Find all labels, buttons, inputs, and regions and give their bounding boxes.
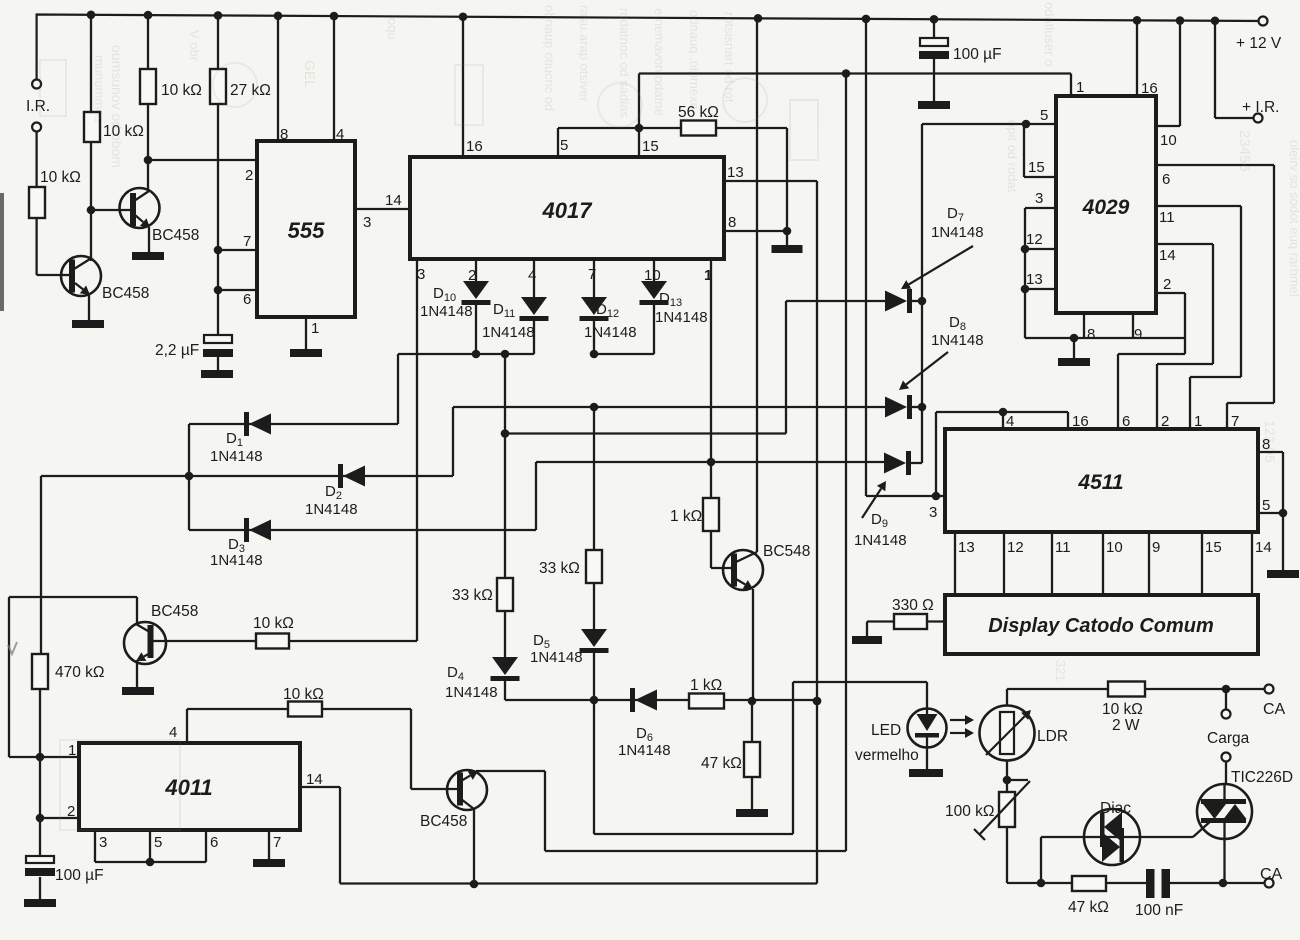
svg-text:1N4148: 1N4148 xyxy=(210,448,263,465)
svg-text:1N4148: 1N4148 xyxy=(854,532,907,549)
svg-text:BC458: BC458 xyxy=(152,227,199,244)
svg-text:23456: 23456 xyxy=(1236,130,1253,172)
svg-text:1N4148: 1N4148 xyxy=(931,332,984,349)
svg-text:1N4148: 1N4148 xyxy=(655,309,708,326)
svg-text:6: 6 xyxy=(243,291,251,308)
svg-text:odatluser o: odatluser o xyxy=(1042,2,1057,66)
svg-text:LDR: LDR xyxy=(1037,728,1068,745)
svg-text:16: 16 xyxy=(1072,413,1089,430)
svg-text:4: 4 xyxy=(336,126,344,143)
svg-text:555: 555 xyxy=(288,218,325,243)
svg-text:8: 8 xyxy=(280,126,288,143)
svg-text:6: 6 xyxy=(1122,413,1130,430)
svg-text:Carga: Carga xyxy=(1207,730,1250,747)
svg-text:oumsunov od obom: oumsunov od obom xyxy=(109,45,125,168)
svg-text:2: 2 xyxy=(1161,413,1169,430)
svg-text:1N4148: 1N4148 xyxy=(445,684,498,701)
svg-text:100 kΩ: 100 kΩ xyxy=(945,803,995,820)
svg-text:1N4148: 1N4148 xyxy=(530,649,583,666)
svg-text:5: 5 xyxy=(1040,107,1048,124)
svg-text:15: 15 xyxy=(642,138,659,155)
svg-text:47 kΩ: 47 kΩ xyxy=(1068,899,1109,916)
svg-text:6: 6 xyxy=(1162,171,1170,188)
svg-text:5: 5 xyxy=(560,137,568,154)
svg-text:11: 11 xyxy=(1055,539,1071,556)
svg-text:Diac: Diac xyxy=(1100,800,1131,817)
svg-text:rasu arap otsiver: rasu arap otsiver xyxy=(577,5,592,102)
svg-text:123 05: 123 05 xyxy=(1262,420,1278,463)
svg-text:BC548: BC548 xyxy=(763,543,810,560)
svg-text:11: 11 xyxy=(1159,209,1175,226)
svg-text:10 kΩ: 10 kΩ xyxy=(1102,701,1143,718)
svg-text:1 kΩ: 1 kΩ xyxy=(670,508,702,525)
svg-text:12: 12 xyxy=(1026,231,1043,248)
svg-text:TIC226D: TIC226D xyxy=(1231,769,1293,786)
svg-text:1: 1 xyxy=(68,742,76,759)
svg-text:10: 10 xyxy=(1106,539,1123,556)
svg-text:6: 6 xyxy=(210,834,218,851)
svg-text:3: 3 xyxy=(929,504,937,521)
svg-text:470 kΩ: 470 kΩ xyxy=(55,664,105,681)
svg-text:LED: LED xyxy=(871,722,901,739)
svg-text:4017: 4017 xyxy=(542,198,594,223)
svg-text:+ I.R.: + I.R. xyxy=(1242,99,1279,116)
svg-text:14: 14 xyxy=(1255,539,1272,556)
svg-text:3: 3 xyxy=(363,214,371,231)
svg-text:16: 16 xyxy=(466,138,483,155)
svg-text:4511: 4511 xyxy=(1077,471,1123,494)
svg-text:1 kΩ: 1 kΩ xyxy=(690,677,722,694)
svg-text:47 kΩ: 47 kΩ xyxy=(701,755,742,772)
svg-text:15: 15 xyxy=(1205,539,1222,556)
svg-text:9: 9 xyxy=(1134,326,1142,343)
svg-text:1: 1 xyxy=(1076,79,1084,96)
svg-text:27 kΩ: 27 kΩ xyxy=(230,82,271,99)
svg-text:2: 2 xyxy=(245,167,253,184)
svg-text:100 µF: 100 µF xyxy=(953,46,1002,63)
svg-text:4011: 4011 xyxy=(164,775,212,800)
svg-text:15: 15 xyxy=(1028,159,1045,176)
svg-text:etnemavon odatne: etnemavon odatne xyxy=(652,8,667,116)
svg-text:4: 4 xyxy=(1006,413,1014,430)
svg-text:10: 10 xyxy=(1160,132,1177,149)
svg-text:14: 14 xyxy=(385,192,402,209)
svg-text:V obr: V obr xyxy=(187,30,202,62)
svg-text:8: 8 xyxy=(1087,326,1095,343)
svg-text:16: 16 xyxy=(1141,80,1158,97)
svg-text:GEL: GEL xyxy=(302,60,318,88)
svg-text:5: 5 xyxy=(154,834,162,851)
svg-text:14: 14 xyxy=(306,771,323,788)
svg-text:rodatnoc od sadias: rodatnoc od sadias xyxy=(617,8,632,118)
svg-text:1N4148: 1N4148 xyxy=(210,552,263,569)
svg-text:7: 7 xyxy=(243,233,251,250)
svg-text:10 kΩ: 10 kΩ xyxy=(283,686,324,703)
svg-text:1: 1 xyxy=(1194,413,1202,430)
svg-text:1: 1 xyxy=(311,320,319,337)
svg-text:33 kΩ: 33 kΩ xyxy=(452,587,493,604)
svg-text:33 kΩ: 33 kΩ xyxy=(539,560,580,577)
svg-text:13: 13 xyxy=(727,164,744,181)
svg-text:321: 321 xyxy=(1053,660,1068,682)
svg-text:BC458: BC458 xyxy=(102,285,149,302)
svg-text:Display Catodo Comum: Display Catodo Comum xyxy=(988,615,1214,637)
svg-text:odnauq ,olpmexe: odnauq ,olpmexe xyxy=(687,10,702,110)
svg-text:rotsisnart od rot: rotsisnart od rot xyxy=(722,12,737,103)
svg-text:9: 9 xyxy=(1152,539,1160,556)
svg-text:3: 3 xyxy=(99,834,107,851)
svg-text:4029: 4029 xyxy=(1082,196,1130,219)
svg-text:vermelho: vermelho xyxy=(855,747,919,764)
svg-text:munummos: munummos xyxy=(92,55,107,123)
svg-text:CA: CA xyxy=(1260,866,1283,883)
svg-text:1N4148: 1N4148 xyxy=(482,324,535,341)
svg-text:oleirv so sodot euq rarbmel: oleirv so sodot euq rarbmel xyxy=(1287,140,1300,297)
svg-text:8: 8 xyxy=(728,214,736,231)
svg-text:BC458: BC458 xyxy=(420,813,467,830)
svg-text:100 nF: 100 nF xyxy=(1135,902,1183,919)
svg-text:1N4148: 1N4148 xyxy=(584,324,637,341)
svg-text:1N4148: 1N4148 xyxy=(305,501,358,518)
svg-text:3: 3 xyxy=(1035,190,1043,207)
svg-text:2: 2 xyxy=(67,803,75,820)
svg-text:CA: CA xyxy=(1263,701,1286,718)
svg-text:2 W: 2 W xyxy=(1112,717,1140,734)
svg-text:5: 5 xyxy=(1262,497,1270,514)
svg-text:1N4148: 1N4148 xyxy=(420,303,473,320)
svg-text:10 kΩ: 10 kΩ xyxy=(253,615,294,632)
svg-text:4: 4 xyxy=(169,724,177,741)
svg-text:3: 3 xyxy=(417,266,425,283)
svg-text:13: 13 xyxy=(1026,271,1043,288)
svg-text:1N4148: 1N4148 xyxy=(931,224,984,241)
svg-text:13: 13 xyxy=(958,539,975,556)
svg-text:12: 12 xyxy=(1007,539,1024,556)
svg-text:obnaup otiucric od: obnaup otiucric od xyxy=(542,5,557,111)
svg-text:BC458: BC458 xyxy=(151,603,198,620)
svg-text:330 Ω: 330 Ω xyxy=(892,597,934,614)
svg-text:opit od rodat: opit od rodat xyxy=(1005,120,1020,193)
svg-text:100 µF: 100 µF xyxy=(55,867,104,884)
svg-text:oqu: oqu xyxy=(385,18,400,40)
svg-text:2,2 µF: 2,2 µF xyxy=(155,342,199,359)
svg-text:10 kΩ: 10 kΩ xyxy=(161,82,202,99)
svg-text:I.R.: I.R. xyxy=(26,98,50,115)
svg-text:7: 7 xyxy=(273,834,281,851)
svg-text:1N4148: 1N4148 xyxy=(618,742,671,759)
svg-text:2: 2 xyxy=(1163,276,1171,293)
svg-text:10 kΩ: 10 kΩ xyxy=(40,169,81,186)
svg-text:14: 14 xyxy=(1159,247,1176,264)
svg-text:7: 7 xyxy=(1231,413,1239,430)
svg-text:+ 12 V: + 12 V xyxy=(1236,35,1282,52)
